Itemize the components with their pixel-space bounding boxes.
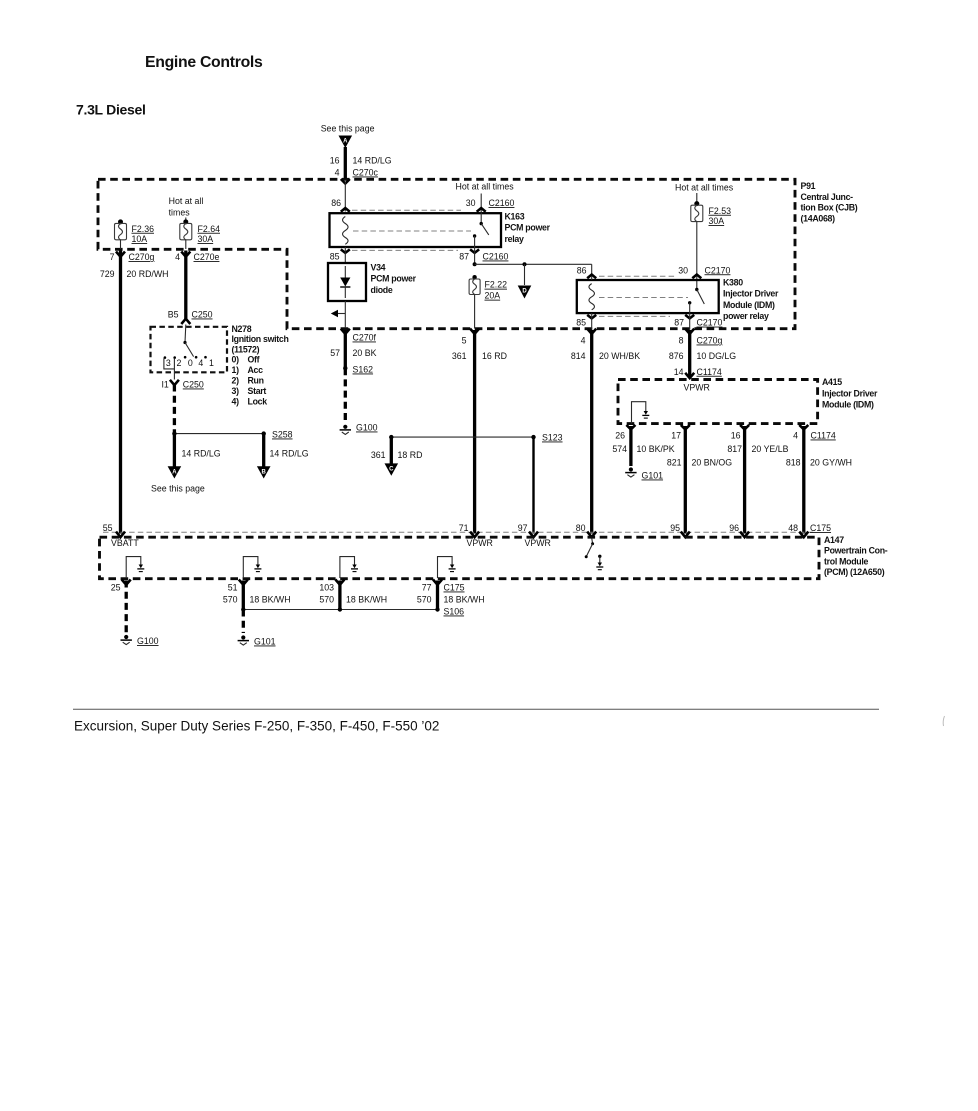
- connector C270g chevron pin 7: [116, 252, 125, 257]
- K163 connector C2160 bottom dashed line: [352, 249, 458, 251]
- wire pin 77 stub: [436, 581, 439, 610]
- IDM pin 16 chevron: [740, 425, 749, 430]
- svg-text:trol Module: trol Module: [824, 556, 869, 566]
- svg-text:4: 4: [793, 431, 798, 441]
- K380 pin87 internal stub: [689, 303, 691, 313]
- K380 connector C2170 top dashed line: [599, 275, 676, 277]
- V34 diode symbol: [340, 266, 350, 298]
- page edge artifact: [943, 716, 944, 726]
- svg-text:(11572): (11572): [232, 344, 260, 354]
- svg-text:F2.36: F2.36: [132, 224, 155, 234]
- svg-text:48: 48: [788, 523, 798, 533]
- svg-text:25: 25: [111, 583, 121, 593]
- svg-text:18 BK/WH: 18 BK/WH: [250, 595, 291, 605]
- svg-text:85: 85: [330, 252, 340, 262]
- PCM internal contact (pin 80 mate): [596, 555, 603, 570]
- splice S258 dot: [262, 431, 266, 435]
- wire fuse F2.36 to CJB edge: [120, 240, 122, 249]
- svg-text:85: 85: [576, 318, 586, 328]
- svg-text:16: 16: [330, 156, 340, 166]
- svg-text:S106: S106: [444, 607, 465, 617]
- svg-text:20A: 20A: [485, 291, 501, 301]
- wire junction to K380 pin 86: [475, 263, 592, 265]
- relay K380 box: [577, 280, 719, 313]
- ignition switch pole wire: [184, 325, 187, 343]
- labels 4 C270e: [175, 252, 219, 262]
- svg-text:C270f: C270f: [353, 333, 377, 343]
- PCM internal switch (pin 80): [585, 538, 594, 559]
- svg-text:Engine Controls: Engine Controls: [145, 54, 263, 71]
- svg-text:VBATT: VBATT: [111, 538, 139, 548]
- PCM internal contact bracket (pin 103): [340, 557, 358, 578]
- IDM pin 17 chevron: [681, 425, 690, 430]
- svg-text:14: 14: [674, 367, 684, 377]
- connector chevron pin 8 C270g (wire 876 CJB exit): [685, 329, 694, 334]
- svg-text:16: 16: [731, 431, 741, 441]
- svg-text:PCM power: PCM power: [371, 274, 417, 284]
- K163 switch pivot: [480, 222, 483, 225]
- junction dot pin103 wire: [338, 607, 342, 611]
- junction dot pin77 wire (S106): [435, 607, 439, 611]
- svg-text:55: 55: [103, 523, 113, 533]
- wire pin 103 stub: [338, 581, 341, 610]
- labels 57 / 20 BK: [330, 348, 376, 358]
- labels 876 / 10 DG/LG: [669, 351, 736, 361]
- svg-text:14 RD/LG: 14 RD/LG: [353, 156, 392, 166]
- labels 817 / 20 YE/LB: [727, 444, 788, 454]
- svg-text:4: 4: [335, 168, 340, 178]
- svg-text:17: 17: [671, 431, 681, 441]
- wire I1 to splice (dashed run): [173, 385, 176, 434]
- svg-text:C175: C175: [810, 523, 831, 533]
- svg-text:Excursion, Super Duty Series F: Excursion, Super Duty Series F-250, F-35…: [74, 719, 439, 734]
- svg-text:G101: G101: [642, 471, 664, 481]
- splice tie line to S123: [391, 436, 533, 438]
- svg-text:30: 30: [466, 198, 476, 208]
- svg-text:G100: G100: [356, 423, 378, 433]
- wire K380 pin85 through CJB edge: [591, 313, 593, 329]
- K163 pin 87 chevron: [470, 249, 479, 253]
- svg-text:361: 361: [371, 450, 386, 460]
- V34 PCM power diode box: [328, 263, 366, 301]
- labels I1 C250: [161, 380, 203, 390]
- svg-text:3: 3: [166, 358, 171, 368]
- svg-text:C250: C250: [192, 310, 213, 320]
- svg-text:361: 361: [452, 351, 467, 361]
- svg-text:4: 4: [175, 252, 180, 262]
- svg-text:Injector Driver: Injector Driver: [822, 388, 878, 398]
- wire from hot feed to pin 30: [480, 194, 482, 213]
- relay K163 box: [330, 213, 502, 247]
- splice tie line to S258: [174, 433, 263, 435]
- wire K380 pin87 through CJB edge: [689, 313, 691, 329]
- net labels VBATT VPWR VPWR: [111, 538, 551, 548]
- PCM pin 103 chevron (bottom): [335, 580, 344, 585]
- svg-text:18 RD: 18 RD: [398, 450, 423, 460]
- svg-text:relay: relay: [505, 234, 524, 244]
- svg-text:VPWR: VPWR: [684, 383, 710, 393]
- labels 361 / 16 RD: [452, 351, 507, 361]
- wire 876 10 DG/LG to IDM: [688, 330, 691, 377]
- svg-text:G101: G101: [254, 637, 276, 647]
- N278 label block: [232, 324, 289, 407]
- K163 pin 85 chevron: [341, 249, 350, 253]
- svg-text:F2.64: F2.64: [198, 224, 221, 234]
- svg-text:C2170: C2170: [705, 265, 731, 275]
- labels 729 20 RD/WH: [100, 269, 169, 279]
- svg-text:G100: G100: [137, 636, 159, 646]
- svg-text:18 BK/WH: 18 BK/WH: [444, 595, 485, 605]
- svg-text:86: 86: [577, 265, 587, 275]
- svg-text:B: B: [262, 469, 267, 475]
- svg-text:96: 96: [729, 523, 739, 533]
- wire 817 20 YE/LB to PCM pin 96: [743, 426, 746, 534]
- wire S123 to PCM pin 97: [532, 437, 534, 533]
- ignition switch contact dots: [164, 356, 207, 359]
- ignition switch position digits 3 2 0 4 1: [166, 358, 214, 368]
- svg-text:5: 5: [462, 336, 467, 346]
- svg-text:K163: K163: [505, 212, 525, 222]
- P91 Central Junction Box dashed outline: [98, 179, 795, 328]
- IDM pin 4 chevron: [799, 425, 808, 430]
- svg-text:V34: V34: [371, 263, 386, 273]
- arrow A (from another page): [339, 136, 353, 149]
- wire K163 pin85 to V34: [344, 247, 346, 263]
- svg-text:C2170: C2170: [697, 318, 723, 328]
- K380 pin 86 chevron: [587, 275, 596, 279]
- connector C270f chevron: [341, 329, 350, 334]
- svg-text:Central Junc-: Central Junc-: [801, 192, 854, 202]
- connector C175 dashed line across PCM top: [103, 531, 816, 533]
- svg-text:power relay: power relay: [723, 311, 769, 321]
- K380 pin 85 chevron: [587, 315, 596, 319]
- svg-text:VPWR: VPWR: [467, 538, 493, 548]
- svg-text:S123: S123: [542, 433, 563, 443]
- svg-text:57: 57: [330, 348, 340, 358]
- svg-text:570: 570: [223, 595, 238, 605]
- K380 label: [723, 278, 779, 322]
- svg-text:7: 7: [110, 252, 115, 262]
- wire 821 20 BN/OG to PCM pin 95: [684, 426, 687, 534]
- wire 574 10 BK/PK to G101: [629, 426, 632, 466]
- wire F2.22 to CJB bottom: [474, 295, 476, 329]
- wire S106 to G101 (dashed): [242, 610, 245, 634]
- fuse F2.22 top dot: [472, 275, 476, 279]
- junction of K163 pin87 with IDM relay feed: [473, 262, 477, 266]
- svg-text:71: 71: [459, 523, 469, 533]
- svg-text:4: 4: [198, 358, 203, 368]
- ground G101 (IDM): [625, 467, 636, 477]
- wire junction to K380 pin 86 (drop): [591, 264, 593, 280]
- svg-text:P91: P91: [801, 181, 816, 191]
- svg-text:C2160: C2160: [483, 252, 509, 262]
- arrow D (to another page): [518, 286, 532, 299]
- svg-text:8: 8: [679, 336, 684, 346]
- svg-text:Run: Run: [248, 376, 264, 386]
- svg-text:F2.53: F2.53: [709, 206, 732, 216]
- svg-text:Module (IDM): Module (IDM): [723, 300, 775, 310]
- A415 Injector Driver Module dashed box: [618, 380, 818, 424]
- PCM pin 77 chevron (bottom): [433, 580, 442, 585]
- wire labels 570 18 BK/WH (x3): [223, 595, 485, 605]
- K163 pin87 internal stub: [474, 236, 476, 247]
- PCM pin 95 chevron: [681, 532, 690, 538]
- ground G101 (bottom): [238, 635, 249, 645]
- svg-text:(PCM) (12A650): (PCM) (12A650): [824, 567, 885, 577]
- svg-text:A: A: [343, 139, 348, 145]
- svg-text:10 BK/PK: 10 BK/PK: [637, 444, 675, 454]
- wire to arrow D: [524, 264, 526, 285]
- PCM pin 25 chevron (bottom): [122, 580, 131, 585]
- ignition switch lever: [185, 343, 194, 357]
- svg-text:574: 574: [612, 444, 627, 454]
- PCM pin 97 chevron: [529, 532, 538, 538]
- wire 57 20 BK: [344, 330, 347, 368]
- labels 814 / 20 WH/BK: [571, 351, 640, 361]
- ignition switch position-3 contact bracket: [164, 358, 175, 369]
- svg-text:814: 814: [571, 351, 586, 361]
- svg-text:times: times: [169, 208, 191, 218]
- wire S258 to arrow B: [262, 434, 265, 467]
- K380 switch lever: [697, 290, 705, 305]
- IDM internal contact bracket (pin 26): [632, 402, 650, 424]
- K163 label: [505, 212, 551, 244]
- svg-text:77: 77: [422, 583, 432, 593]
- PCM pin 51 chevron (bottom): [239, 580, 248, 585]
- labels 85 / 87 / C2160: [330, 252, 509, 262]
- svg-text:VPWR: VPWR: [525, 538, 551, 548]
- P91 CJB label: [801, 181, 858, 223]
- svg-text:570: 570: [417, 595, 432, 605]
- feed stub to fuse F2.53: [696, 193, 698, 202]
- feed stub to fuse F2.64: [185, 218, 187, 223]
- wire 14 RD/LG to arrow A: [173, 434, 176, 467]
- svg-text:30A: 30A: [198, 234, 214, 244]
- svg-text:20 BK: 20 BK: [353, 348, 377, 358]
- fuse F2.53 30A: [691, 201, 731, 226]
- svg-text:30A: 30A: [709, 216, 725, 226]
- svg-text:20 YE/LB: 20 YE/LB: [752, 444, 789, 454]
- labels 361 / 18 RD: [371, 450, 423, 460]
- PCM pin labels 55 71 97 80 95 96 48 C175: [103, 523, 831, 533]
- svg-text:C1174: C1174: [697, 367, 722, 377]
- svg-text:1: 1: [209, 358, 214, 368]
- svg-text:2): 2): [232, 376, 240, 386]
- A415 IDM label: [822, 377, 878, 409]
- svg-text:7.3L Diesel: 7.3L Diesel: [76, 102, 146, 118]
- splice S123 dot: [531, 435, 535, 439]
- K380 switch contact dot: [688, 301, 691, 304]
- wire 361 18 RD to arrow C: [390, 437, 393, 464]
- PCM pin 55 chevron: [116, 532, 125, 538]
- svg-text:D: D: [522, 289, 527, 295]
- label 16 / 4 / 14 RD/LG / C270c: [330, 156, 392, 178]
- svg-text:570: 570: [319, 595, 334, 605]
- svg-text:C250: C250: [183, 380, 204, 390]
- svg-text:Hot at all times: Hot at all times: [675, 183, 734, 193]
- labels 85 / 87 / C2170: [576, 318, 722, 328]
- PCM internal contact bracket (pin 77): [438, 557, 456, 578]
- connector C250 chevron pin I1: [170, 380, 179, 385]
- labels 818 / 20 GY/WH: [786, 458, 852, 468]
- svg-text:80: 80: [576, 523, 586, 533]
- svg-text:0: 0: [188, 358, 193, 368]
- connector C1174 chevron pin 14: [685, 373, 694, 378]
- svg-text:A415: A415: [822, 377, 842, 387]
- svg-text:See this page: See this page: [151, 484, 205, 494]
- wire V34 to C270f: [344, 301, 346, 328]
- wire 361 16 RD to PCM pin 71: [473, 330, 476, 534]
- labels 86 / 30 / C2160: [331, 198, 514, 208]
- svg-text:Module (IDM): Module (IDM): [822, 400, 874, 410]
- fuse F2.36 10A: [115, 219, 155, 244]
- svg-text:I1: I1: [161, 380, 168, 390]
- svg-text:14 RD/LG: 14 RD/LG: [270, 449, 309, 459]
- wire 14 RD/LG from arrow A: [344, 147, 347, 179]
- svg-text:16 RD: 16 RD: [482, 351, 507, 361]
- wire K163 pin87 down to junction: [474, 247, 476, 264]
- fuse F2.22 20A: [469, 279, 507, 301]
- svg-text:95: 95: [670, 523, 680, 533]
- svg-text:Off: Off: [248, 355, 260, 365]
- svg-text:PCM power: PCM power: [505, 223, 551, 233]
- IDM pin 26 chevron: [626, 425, 635, 430]
- svg-text:30: 30: [678, 265, 688, 275]
- svg-text:817: 817: [727, 444, 742, 454]
- wire F2.53 to K380 pin 30: [696, 222, 698, 290]
- svg-text:821: 821: [667, 458, 682, 468]
- junction dot pin51 wire: [241, 607, 245, 611]
- svg-text:20 RD/WH: 20 RD/WH: [127, 269, 169, 279]
- svg-text:10A: 10A: [132, 234, 148, 244]
- svg-text:Ignition switch: Ignition switch: [232, 334, 289, 344]
- svg-text:S162: S162: [353, 365, 374, 375]
- K380 pin 87 chevron: [685, 315, 694, 319]
- K380 internal linkage dashed: [599, 297, 688, 299]
- footer rule: [73, 708, 879, 710]
- svg-text:818: 818: [786, 458, 801, 468]
- svg-text:86: 86: [331, 198, 341, 208]
- junction dot (18 RD branch): [389, 435, 393, 439]
- svg-text:0): 0): [232, 355, 240, 365]
- svg-text:876: 876: [669, 351, 684, 361]
- K163 pin 30 chevron: [477, 208, 486, 212]
- svg-text:2: 2: [177, 358, 182, 368]
- labels 821 / 20 BN/OG: [667, 458, 732, 468]
- svg-text:Hot at all: Hot at all: [169, 196, 204, 206]
- labels 86 / 30 / C2170: [577, 265, 731, 275]
- svg-text:diode: diode: [371, 285, 393, 295]
- arrow C (to another page): [385, 463, 399, 475]
- K163 switch contact dot: [473, 234, 476, 237]
- svg-text:20 BN/OG: 20 BN/OG: [692, 458, 733, 468]
- K380 connector C2170 bottom dashed line: [599, 315, 670, 317]
- hot at all times (above F2.64): [169, 196, 204, 218]
- PCM pin 80 chevron: [587, 532, 596, 538]
- wire into CJB to relay pin 86: [344, 182, 346, 212]
- labels 7 C270g: [110, 252, 155, 262]
- svg-text:Injector Driver: Injector Driver: [723, 289, 779, 299]
- K163 switch pin30 stub: [480, 213, 482, 224]
- PCM pin 96 chevron: [740, 532, 749, 538]
- svg-text:1): 1): [232, 365, 240, 375]
- svg-text:S258: S258: [272, 430, 293, 440]
- svg-text:Acc: Acc: [248, 365, 264, 375]
- svg-text:103: 103: [319, 583, 334, 593]
- IDM pin labels 26 17 16 4 C1174: [615, 431, 836, 441]
- PCM pin 71 chevron: [470, 532, 479, 538]
- fuse F2.64 30A: [180, 219, 220, 244]
- ground G100 (mid): [340, 425, 351, 435]
- ground G100 (bottom): [121, 635, 132, 645]
- wire 818 20 GY/WH to PCM pin 48: [802, 426, 805, 534]
- svg-text:10 DG/LG: 10 DG/LG: [697, 351, 737, 361]
- svg-text:20 WH/BK: 20 WH/BK: [599, 351, 640, 361]
- K380 coil: [589, 284, 595, 310]
- svg-text:F2.22: F2.22: [485, 280, 508, 290]
- svg-text:C175: C175: [444, 583, 465, 593]
- svg-text:729: 729: [100, 269, 115, 279]
- svg-text:C270g: C270g: [697, 336, 723, 346]
- svg-text:N278: N278: [232, 324, 252, 334]
- PCM internal contact bracket (pin 51): [243, 557, 261, 578]
- connector chevron pin 5 (CJB exit of 16 RD wire): [470, 329, 479, 334]
- svg-text:Powertrain Con-: Powertrain Con-: [824, 546, 888, 556]
- svg-text:Start: Start: [248, 386, 267, 396]
- K163 switch lever: [481, 224, 489, 235]
- wire PCM pin 25 to G100 (dashed): [125, 581, 128, 634]
- splice bus line S106: [243, 609, 437, 611]
- wire 729 20 RD/WH (VBATT run to PCM pin 55): [119, 251, 122, 534]
- wire 814 20 WH/BK to PCM pin 80: [590, 330, 593, 534]
- svg-text:20 GY/WH: 20 GY/WH: [810, 458, 852, 468]
- junction dot on I1 wire: [172, 431, 176, 435]
- svg-text:Hot at all times: Hot at all times: [456, 182, 515, 192]
- arrow B (to another page): [257, 466, 271, 478]
- svg-text:26: 26: [615, 431, 625, 441]
- svg-text:tion Box (CJB): tion Box (CJB): [801, 203, 858, 213]
- svg-text:C270g: C270g: [129, 252, 155, 262]
- svg-text:14 RD/LG: 14 RD/LG: [182, 449, 221, 459]
- K380 pin 30 chevron: [692, 275, 701, 279]
- connector chevron pin 4 (wire 814 CJB exit): [587, 329, 596, 334]
- connector C270c chevron: [341, 179, 350, 184]
- A147 Powertrain Control Module dashed box: [100, 537, 820, 579]
- labels B5 C250: [168, 310, 213, 320]
- connector C270e chevron pin 4: [181, 252, 190, 257]
- svg-text:87: 87: [674, 318, 684, 328]
- ignition switch B5 chevron: [181, 319, 190, 324]
- wire fuse F2.64 to CJB edge: [185, 240, 187, 249]
- PCM pin 48 chevron: [799, 532, 808, 538]
- svg-text:(14A068): (14A068): [801, 213, 836, 223]
- svg-text:C2160: C2160: [489, 198, 515, 208]
- svg-text:4: 4: [581, 336, 586, 346]
- branch arrow (wire continues, left): [331, 310, 346, 317]
- K163 connector C2160 top dashed line: [352, 209, 461, 211]
- svg-text:C: C: [389, 467, 394, 473]
- svg-text:A: A: [172, 469, 177, 475]
- svg-text:Lock: Lock: [248, 397, 268, 407]
- svg-text:3): 3): [232, 386, 240, 396]
- svg-text:K380: K380: [723, 278, 743, 288]
- svg-text:51: 51: [228, 583, 238, 593]
- N278 ignition switch dashed box: [151, 327, 228, 373]
- V34 label: [371, 263, 417, 295]
- svg-text:A147: A147: [824, 535, 844, 545]
- wire S162 to G100 (dashed): [344, 368, 347, 423]
- labels 8 / C270g: [679, 336, 723, 346]
